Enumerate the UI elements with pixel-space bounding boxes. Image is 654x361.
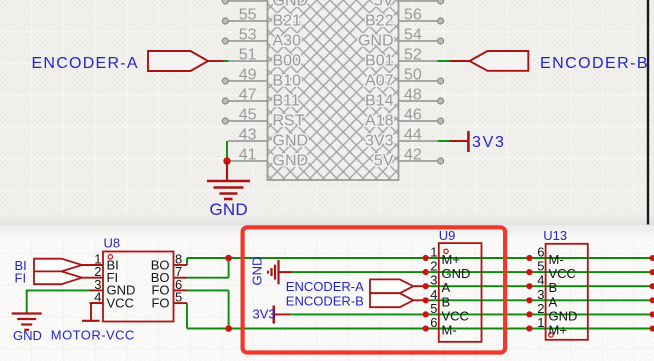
svg-text:2: 2 [537,301,544,316]
wire pin43 to pin41 junction [226,141,228,161]
IC body (microcontroller) [268,0,399,180]
net flag ENCODER-B (bottom) [370,293,413,307]
svg-text:VCC: VCC [107,295,134,310]
wire U8 pin6 to row6 [187,289,229,291]
net wire row1 (M+) [187,258,654,278]
U8 pin 6 (FO) [151,277,187,298]
svg-text:FO: FO [151,295,169,310]
net wire row2 (GND) [292,271,654,273]
svg-text:56: 56 [404,7,422,24]
wire ENCODER-B to pin 52 [438,60,450,62]
U8 pin 8 (BO) [151,252,187,273]
wire U8 pin4 to MOTOR-VCC supply [91,303,103,321]
svg-text:A: A [442,280,451,295]
svg-text:M+: M+ [442,252,460,267]
svg-text:4: 4 [537,273,544,288]
U13 pin 2 (GND) [526,301,654,324]
selection highlight rectangle around U9 [243,227,506,352]
svg-text:U13: U13 [543,228,567,243]
svg-text:1: 1 [430,245,437,260]
wire ENCODER-B to U9 pin4 [413,299,425,301]
svg-text:B22: B22 [365,13,394,30]
U9 pin 1 (M+) [423,245,460,268]
top section background [0,0,654,214]
svg-text:A: A [549,294,558,309]
svg-text:5V: 5V [374,0,394,10]
U13 pin 6 (M-) [526,245,654,268]
svg-text:5: 5 [537,259,544,274]
svg-text:M-: M- [549,252,564,267]
grid lines [0,0,654,214]
junction dot pins 41/43 [223,157,230,164]
wire U8 pin3 to ground [27,290,90,313]
svg-text:GND: GND [273,0,309,10]
IC pin row y=41: left 53 A30 / right GND 54 [222,27,443,50]
U8 pin 2 (FI) [82,264,118,285]
U9 pin 2 (GND) [423,259,471,282]
svg-text:44: 44 [404,127,422,144]
net flag ENCODER-A (top) [148,51,208,71]
net wire row3 (A) [426,285,654,287]
U8 pin 7 (BO) [151,264,187,285]
svg-text:B: B [442,294,451,309]
svg-text:B: B [549,280,558,295]
svg-text:B21: B21 [273,13,302,30]
junction dot row6 [225,325,232,332]
svg-text:A18: A18 [365,113,394,130]
svg-text:B14: B14 [365,93,394,110]
svg-text:RST: RST [273,113,305,130]
svg-text:50: 50 [404,67,422,84]
wire ENCODER-A to U9 pin3 [413,285,425,287]
svg-text:M-: M- [442,323,457,338]
IC pin row y=101: left 47 B11 / right B14 48 [222,87,443,110]
svg-text:43: 43 [239,127,257,144]
IC pin row y=81: left 49 B10 / right A07 50 [222,67,443,90]
supply symbol 3V3 (top) [467,131,470,152]
svg-text:U8: U8 [104,236,121,251]
svg-text:GND: GND [358,33,394,50]
bottom section background [0,226,654,361]
IC pin row y=1: left GND / right 5V [222,0,443,10]
svg-text:3V3: 3V3 [365,133,394,150]
svg-text:42: 42 [404,147,422,164]
svg-text:B01: B01 [365,53,394,70]
U8 pin1 origin circle [108,255,112,259]
U8 pin 3 (GND) [90,277,136,298]
wire pin44 to 3V3 supply [438,140,449,142]
net wire row6 (M-) [187,290,654,328]
IC pin row y=161: left 41 GND / right 5V 42 [228,147,444,170]
svg-text:52: 52 [404,47,422,64]
svg-text:5: 5 [430,301,437,316]
svg-text:2: 2 [430,259,437,274]
U9 pin 6 (M-) [423,315,457,338]
IC U13 body [546,244,588,340]
svg-text:GND: GND [13,328,42,343]
svg-text:3V3: 3V3 [472,134,506,151]
svg-text:GND: GND [210,200,248,219]
supply symbol 3V3 (bottom) [272,306,275,324]
U13 pin 3 (A) [526,287,654,310]
svg-text:VCC: VCC [442,308,469,323]
U9 pin 3 (A) [423,273,451,296]
wire 3V3 to row5 [274,313,290,315]
ground symbol GND (rotated, row2) [268,260,292,284]
svg-text:3: 3 [537,287,544,302]
U9 pin1 origin circle [444,249,448,253]
svg-text:6: 6 [430,315,437,330]
divider gradient [0,213,654,225]
junction dot row1 [225,255,232,262]
svg-text:GND: GND [273,153,309,170]
svg-text:MOTOR-VCC: MOTOR-VCC [51,328,135,343]
U13 pin1 origin circle [549,333,553,337]
net wire row4 (B) [426,299,654,301]
svg-text:FI: FI [15,271,27,286]
svg-text:41: 41 [239,147,257,164]
supply symbol MOTOR-VCC bar [82,320,100,322]
svg-text:51: 51 [239,47,257,64]
svg-text:45: 45 [239,107,257,124]
svg-text:5: 5 [175,290,182,305]
svg-text:ENCODER-B: ENCODER-B [540,55,649,72]
net flag ENCODER-A (bottom) [370,279,413,293]
IC pin row y=121: left 45 RST / right A18 46 [222,107,443,130]
U13 pin 1 (M+) [526,315,654,338]
svg-text:4: 4 [430,287,437,302]
svg-text:GND: GND [549,308,578,323]
svg-text:GND: GND [250,257,265,286]
svg-text:ENCODER-B: ENCODER-B [286,293,364,308]
IC pin row y=61: left 51 B00 / right B01 52 [228,47,438,70]
U9 pin 4 (B) [423,287,451,310]
svg-text:6: 6 [537,245,544,260]
svg-text:55: 55 [239,7,257,24]
svg-text:M+: M+ [549,323,567,338]
U9 pin 5 (VCC) [423,301,469,324]
svg-text:5V: 5V [374,153,394,170]
svg-text:1: 1 [537,315,544,330]
svg-text:ENCODER-A: ENCODER-A [286,279,364,294]
svg-text:U9: U9 [439,228,456,243]
svg-text:A30: A30 [273,33,302,50]
svg-text:47: 47 [239,87,257,104]
svg-text:B00: B00 [273,53,302,70]
svg-text:46: 46 [404,107,422,124]
U8 pin 4 (VCC) [90,290,134,311]
U8 pin 1 (BI) [82,252,119,273]
wire U8 pin7 to row1 [187,277,229,279]
svg-text:3: 3 [430,273,437,288]
IC U9 body [439,243,482,342]
svg-text:B11: B11 [273,93,300,110]
U13 pin 4 (B) [526,273,654,296]
svg-text:53: 53 [239,27,257,44]
net flag ENCODER-B (top) [470,51,529,71]
svg-text:GND: GND [273,133,309,150]
svg-text:48: 48 [404,87,422,104]
svg-text:VCC: VCC [549,266,576,281]
svg-text:49: 49 [239,67,257,84]
svg-text:GND: GND [442,266,471,281]
schematic frame border line [647,0,649,225]
net flag BI [34,259,82,272]
svg-text:ENCODER-A: ENCODER-A [32,55,139,72]
net wire row5 (VCC) [290,313,654,315]
svg-text:54: 54 [404,27,422,44]
IC U8 body [103,252,174,322]
svg-text:A07: A07 [365,73,394,90]
ground symbol GND (top) [207,161,250,199]
ground symbol GND (bottom left) [12,314,42,330]
U8 pin 5 (FO) [151,290,187,311]
IC pin row y=141: left 43 GND / right 3V3 44 [228,127,438,150]
U13 pin 5 (VCC) [526,259,654,282]
IC pin row y=21: left 55 B21 / right B22 56 [222,7,443,30]
svg-text:B10: B10 [273,73,302,90]
net flag FI [34,271,82,284]
wire ENCODER-A to pin 51 [208,60,223,62]
svg-text:3V3: 3V3 [253,307,276,322]
